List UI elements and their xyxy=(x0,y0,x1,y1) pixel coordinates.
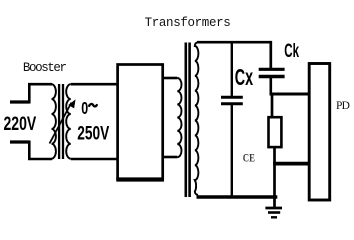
regulator box bottom edge (thick) xyxy=(116,177,164,181)
resistor CE body xyxy=(269,117,282,147)
transformer T1 core bar left xyxy=(58,84,60,159)
transformer T2 primary winding xyxy=(177,78,181,157)
svg-text:Cx: Cx xyxy=(235,64,253,91)
svg-text:Booster: Booster xyxy=(23,61,67,75)
capacitor Ck top plate xyxy=(259,68,285,71)
capacitor Cx bottom plate xyxy=(221,102,243,105)
wire 220V bottom lead xyxy=(29,141,52,160)
transformer T2 secondary winding xyxy=(195,42,199,195)
wire junction to PD box upper xyxy=(270,93,310,96)
ground bar 1 xyxy=(265,207,282,210)
wire regulator to T2 primary bottom xyxy=(162,156,177,159)
transformer T1 booster secondary winding xyxy=(66,84,71,158)
svg-text:Transformers: Transformers xyxy=(145,16,231,30)
transformer T2 core bar right xyxy=(188,43,191,198)
transformer T1 booster primary winding xyxy=(52,84,56,158)
wire Ck bottom to junction xyxy=(269,78,272,96)
wire bottom rail xyxy=(197,195,278,199)
wire T1 secondary top to regulator box xyxy=(71,83,118,86)
ground bar 2 xyxy=(268,211,280,214)
terminal 220V bottom xyxy=(10,140,29,143)
svg-text:0: 0 xyxy=(81,99,88,119)
capacitor Cx top plate xyxy=(221,96,243,99)
PD box xyxy=(309,64,330,201)
wire Cx lower xyxy=(231,105,233,197)
wire resistor bottom to ground stem xyxy=(273,147,276,207)
capacitor Ck bottom plate xyxy=(259,75,285,78)
wire T1 secondary bottom to regulator box xyxy=(71,158,118,161)
wire junction down to resistor xyxy=(271,94,274,117)
svg-text:CE: CE xyxy=(243,152,255,165)
wire 220V top lead xyxy=(29,84,52,103)
svg-text:220V: 220V xyxy=(4,113,37,135)
variac arrow of T1 xyxy=(50,100,76,143)
wire secondary top rail xyxy=(197,41,271,44)
regulator box xyxy=(118,65,163,180)
wire resistor node to PD box lower xyxy=(273,162,309,166)
svg-text:Ck: Ck xyxy=(284,41,299,62)
transformer T1 core bar right xyxy=(62,84,64,159)
node Cx tap on top rail / wire Cx upper xyxy=(231,42,233,96)
wire top rail corner down to Ck xyxy=(269,41,272,68)
terminal 220V top xyxy=(10,100,29,103)
svg-text:250V: 250V xyxy=(77,122,110,144)
wire regulator to T2 primary top xyxy=(162,77,177,80)
transformer T2 core bar left xyxy=(185,43,188,198)
ground bar 3 xyxy=(271,216,277,218)
svg-text:PD: PD xyxy=(336,100,350,112)
